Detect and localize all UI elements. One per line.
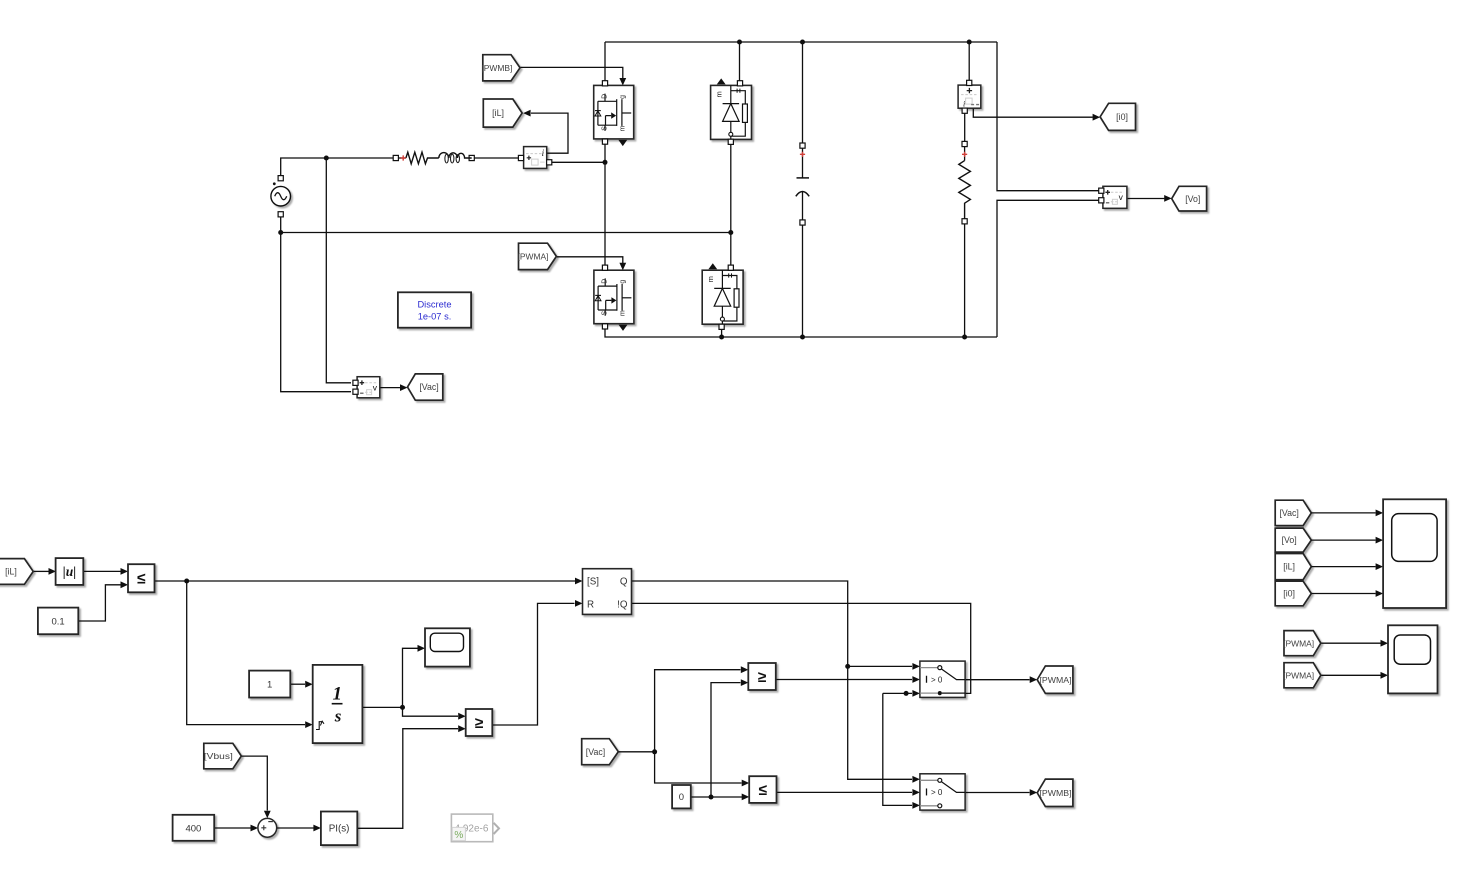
svg-text:D: D — [602, 279, 609, 284]
svg-text:[PWMA]: [PWMA] — [1283, 638, 1314, 648]
svg-text:[Vac]: [Vac] — [586, 747, 605, 757]
svg-text:≤: ≤ — [759, 782, 768, 799]
svg-text:m: m — [714, 91, 723, 97]
svg-text:Discrete: Discrete — [417, 300, 451, 310]
svg-text:!Q: !Q — [617, 599, 628, 610]
svg-text:[iL]: [iL] — [1283, 562, 1295, 572]
svg-text:> 0: > 0 — [931, 788, 943, 797]
svg-text:[iL]: [iL] — [5, 567, 17, 577]
svg-text:%: % — [454, 830, 463, 841]
svg-text:R: R — [587, 599, 594, 610]
svg-text:[PWMA]: [PWMA] — [518, 252, 549, 262]
svg-text:Q: Q — [620, 576, 628, 587]
svg-text:≤: ≤ — [137, 571, 146, 588]
svg-text:0: 0 — [679, 792, 684, 803]
svg-text:[Vac]: [Vac] — [1279, 508, 1298, 518]
svg-text:400: 400 — [185, 824, 201, 835]
svg-text:S: S — [601, 126, 608, 131]
svg-text:[Vac]: [Vac] — [419, 382, 438, 392]
svg-text:[i0]: [i0] — [1116, 112, 1128, 122]
svg-text:g: g — [620, 280, 627, 284]
svg-text:≥: ≥ — [758, 669, 767, 686]
svg-text:PI(s): PI(s) — [329, 823, 350, 834]
svg-text:g: g — [619, 95, 626, 99]
svg-text:≥: ≥ — [475, 715, 484, 732]
svg-text:[S]: [S] — [587, 576, 599, 587]
svg-text:v: v — [1119, 192, 1124, 202]
svg-text:s: s — [334, 707, 342, 726]
svg-text:|u|: |u| — [63, 564, 76, 579]
svg-text:[Vo]: [Vo] — [1282, 535, 1297, 545]
svg-text:D: D — [601, 94, 608, 99]
svg-text:[Vo]: [Vo] — [1185, 194, 1200, 204]
svg-text:[PWMB]: [PWMB] — [481, 63, 512, 73]
svg-text:1: 1 — [333, 684, 343, 705]
svg-text:[PWMA]: [PWMA] — [1283, 670, 1314, 680]
svg-text:S: S — [602, 311, 609, 316]
svg-text:[Vbus]: [Vbus] — [204, 751, 233, 761]
svg-text:1e-07 s.: 1e-07 s. — [418, 312, 452, 322]
svg-text:i: i — [963, 100, 965, 109]
svg-text:[PWMA]: [PWMA] — [1040, 675, 1072, 685]
svg-text:m: m — [619, 125, 626, 131]
svg-text:[i0]: [i0] — [1283, 589, 1295, 599]
svg-text:v: v — [373, 383, 378, 393]
svg-text:1: 1 — [267, 679, 272, 690]
svg-text:[PWMB]: [PWMB] — [1040, 788, 1072, 798]
svg-text:0.1: 0.1 — [51, 616, 64, 627]
svg-text:m: m — [620, 310, 627, 316]
svg-text:[iL]: [iL] — [492, 108, 504, 118]
svg-text:m: m — [706, 276, 715, 282]
svg-text:> 0: > 0 — [931, 675, 943, 684]
